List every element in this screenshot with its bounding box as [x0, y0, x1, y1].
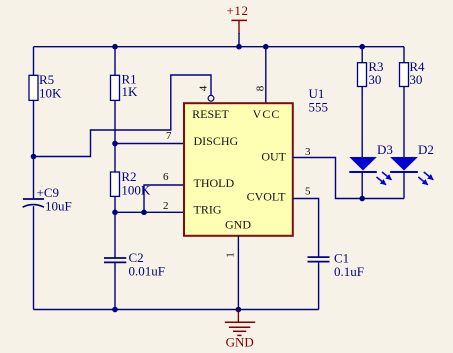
resistor R4 — [400, 59, 426, 87]
wire R5 bottom to node — [33, 100, 35, 156]
wire GND pin 1 stub — [237, 236, 239, 310]
svg-text:30: 30 — [409, 72, 422, 87]
pin number 5 — [305, 186, 311, 198]
wire C2 bottom — [114, 262, 116, 309]
pin name VCC — [253, 107, 281, 121]
pin number 1 — [224, 252, 236, 258]
junction node R5/C9/reset — [31, 154, 37, 160]
junction node pin6/pin2 — [141, 210, 147, 216]
junction node +12/rail — [236, 44, 242, 50]
wire node to C9 — [33, 157, 35, 199]
wire rail end down to R4 — [403, 47, 405, 63]
svg-text:5: 5 — [305, 186, 311, 198]
pin number 2 — [163, 200, 169, 212]
resistor R5 — [29, 72, 62, 100]
LED D3 — [349, 142, 393, 185]
svg-text:10K: 10K — [39, 86, 62, 101]
junction node R1/R2/pin7 — [112, 141, 118, 147]
capacitor C1 — [308, 250, 364, 279]
pin name THOLD — [194, 176, 235, 190]
junction node rail/R1 top — [112, 44, 118, 50]
svg-text:D3: D3 — [377, 142, 393, 157]
wire R2 bottom stub — [114, 196, 116, 212]
svg-text:DISCHG: DISCHG — [194, 134, 239, 148]
svg-text:2: 2 — [163, 200, 169, 212]
pin name RESET — [192, 107, 229, 121]
svg-text:GND: GND — [226, 334, 254, 349]
resistor R2 — [111, 169, 151, 198]
pin number 8 — [254, 85, 266, 91]
wire R3 to D3 anode — [361, 87, 363, 158]
wire OUT pin 3 to cathodes — [293, 158, 404, 199]
svg-text:3: 3 — [305, 146, 311, 158]
svg-text:D2: D2 — [418, 142, 434, 157]
junction node R2/TRIG/C2 — [112, 210, 118, 216]
wire C1 bottom to rail — [318, 262, 320, 310]
resistor R1 — [111, 72, 139, 101]
ground symbol — [225, 310, 255, 350]
junction node rail/R3 — [359, 44, 365, 50]
svg-text:THOLD: THOLD — [194, 176, 235, 190]
svg-text:8: 8 — [254, 85, 266, 91]
svg-text:30: 30 — [368, 72, 381, 87]
svg-text:OUT: OUT — [261, 149, 286, 163]
svg-text:10uF: 10uF — [45, 198, 72, 213]
junction node D3 cathode — [359, 196, 365, 202]
junction node GND/rail — [236, 307, 242, 313]
wire R2 top stub — [114, 144, 116, 173]
pin name GND — [225, 217, 251, 231]
pin number 4 — [197, 85, 209, 91]
wire R1 bottom to pin7 node — [114, 100, 116, 143]
power +12 — [227, 3, 249, 34]
wire reset chain node to riser — [34, 75, 212, 157]
svg-text:1K: 1K — [122, 84, 139, 99]
wire VCC pin 8 stub — [265, 47, 267, 103]
svg-text:VCC: VCC — [253, 107, 281, 121]
wire +12 to rail — [238, 33, 240, 47]
wire top rail VCC — [34, 46, 405, 48]
capacitor C9 — [23, 185, 72, 214]
wire R5 top stub — [33, 47, 35, 76]
pin number 7 — [166, 130, 172, 142]
wire D3 cathode to node — [361, 172, 363, 199]
svg-text:+12: +12 — [227, 3, 249, 18]
op-amp U1 555 body — [184, 86, 328, 236]
svg-text:0.1uF: 0.1uF — [334, 264, 364, 279]
resistor R3 — [358, 59, 384, 87]
pin number 3 — [305, 146, 311, 158]
svg-text:0.01uF: 0.01uF — [129, 263, 165, 278]
pin 4 bubble — [208, 95, 214, 101]
wire THOLD pin 6 — [144, 185, 184, 212]
svg-text:6: 6 — [163, 171, 169, 183]
svg-text:TRIG: TRIG — [194, 202, 222, 216]
wire D2 cathode to node — [403, 172, 405, 199]
junction node C2/ground rail — [112, 307, 118, 313]
wire C9 bottom to ground rail — [33, 206, 35, 309]
wire C2 top — [114, 212, 116, 257]
pin name CVOLT — [247, 189, 287, 203]
svg-text:1: 1 — [224, 252, 236, 258]
svg-text:GND: GND — [225, 217, 251, 231]
pin name OUT — [261, 149, 286, 163]
wire CVOLT pin 5 to C1 — [293, 199, 319, 257]
wire R3 top stub — [361, 47, 363, 63]
pin name TRIG — [194, 202, 222, 216]
pin name DISCHG — [194, 134, 239, 148]
wire bottom ground rail — [34, 309, 319, 311]
svg-text:CVOLT: CVOLT — [247, 189, 287, 203]
LED D2 — [390, 142, 434, 185]
pin number 6 — [163, 171, 169, 183]
svg-text:RESET: RESET — [192, 107, 229, 121]
wire R1 top stub — [114, 47, 116, 76]
svg-text:7: 7 — [166, 130, 172, 142]
wire TRIG pin 2 — [115, 211, 184, 213]
wire DISCHG pin 7 — [115, 143, 184, 145]
junction node VCC/rail — [263, 44, 269, 50]
wire R4 to D2 anode — [403, 87, 405, 158]
capacitor C2 — [104, 250, 165, 279]
svg-text:555: 555 — [309, 99, 329, 114]
svg-text:4: 4 — [197, 85, 209, 91]
